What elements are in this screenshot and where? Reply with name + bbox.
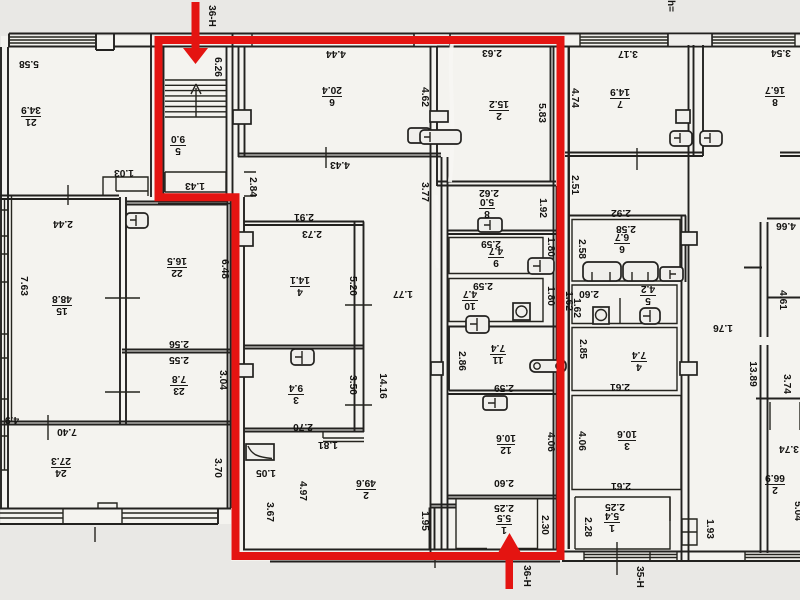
- far right wall verticals: [761, 222, 768, 553]
- svg-text:3.17: 3.17: [618, 48, 638, 59]
- room 4-7.4 box: [572, 328, 677, 391]
- label room 3/10.6: [617, 428, 637, 451]
- svg-text:4.97: 4.97: [297, 481, 308, 501]
- label room 24/27.3: [51, 455, 71, 478]
- right column right wall: [681, 215, 683, 561]
- creases: [450, 42, 452, 182]
- svg-text:2.59: 2.59: [473, 280, 493, 291]
- svg-text:1.92: 1.92: [537, 198, 548, 218]
- svg-text:2: 2: [363, 489, 369, 500]
- svg-text:3.50: 3.50: [347, 375, 358, 395]
- radiators room7/8 top-right: [670, 131, 692, 146]
- svg-text:20.4: 20.4: [322, 84, 342, 95]
- svg-text:21: 21: [25, 116, 37, 127]
- svg-text:2.85: 2.85: [577, 339, 588, 359]
- door room6 left: [233, 110, 251, 124]
- svg-text:h=: h=: [665, 0, 676, 12]
- label room 8/16.7: [765, 84, 785, 107]
- room 1-5.4 right step: [670, 497, 697, 545]
- rooms 22/23 divider: [122, 350, 231, 353]
- entry door sloped room2-49.6: [246, 444, 274, 460]
- svg-text:5: 5: [175, 145, 181, 156]
- svg-text:8: 8: [772, 96, 778, 107]
- door square room4 left: [238, 232, 253, 246]
- svg-text:3.70: 3.70: [212, 458, 223, 478]
- red-flank wall inner (x553-556): [554, 46, 557, 549]
- svg-text:5.58: 5.58: [19, 58, 39, 69]
- svg-text:6: 6: [329, 96, 335, 107]
- door bump room6-6.7 right: [681, 232, 697, 245]
- svg-text:36-H: 36-H: [521, 565, 532, 587]
- label room 5/9.0: [170, 133, 186, 156]
- svg-text:2.61: 2.61: [611, 480, 631, 491]
- room 1-5.5 box: [456, 499, 538, 550]
- room 5-4.2 box: [572, 285, 677, 324]
- svg-text:2.25: 2.25: [494, 502, 514, 513]
- svg-text:2.59: 2.59: [481, 238, 501, 249]
- svg-text:16.7: 16.7: [765, 84, 785, 95]
- svg-text:1.93: 1.93: [704, 519, 715, 539]
- svg-text:2.91: 2.91: [294, 211, 314, 222]
- sofa row room6-6.7: [583, 262, 621, 281]
- svg-text:9.4: 9.4: [289, 382, 303, 393]
- label room 5/4.2: [640, 283, 656, 306]
- svg-text:1.43: 1.43: [185, 180, 205, 191]
- svg-text:7: 7: [617, 98, 623, 109]
- svg-text:2.59: 2.59: [494, 382, 514, 393]
- svg-text:2.28: 2.28: [582, 517, 593, 537]
- room 15 left inner wall: [11, 196, 13, 421]
- room 7 bottom wall: [565, 153, 800, 157]
- room 3-10.6 box: [572, 396, 681, 490]
- svg-text:6.26: 6.26: [212, 57, 223, 77]
- svg-text:7.4: 7.4: [491, 342, 505, 353]
- svg-text:1.80: 1.80: [545, 237, 556, 257]
- room 6-20.4 left wall: [239, 47, 245, 157]
- svg-text:2.51: 2.51: [569, 175, 580, 195]
- svg-text:15: 15: [56, 305, 68, 316]
- svg-text:1.77: 1.77: [393, 288, 413, 299]
- svg-text:66.9: 66.9: [765, 472, 785, 483]
- svg-text:3: 3: [293, 394, 299, 405]
- svg-text:35-H: 35-H: [634, 566, 645, 588]
- label room 22/16.5: [167, 255, 187, 278]
- svg-text:27.3: 27.3: [51, 455, 71, 466]
- svg-text:3.54: 3.54: [771, 47, 791, 58]
- svg-text:2.63: 2.63: [482, 47, 502, 58]
- stairs landing 1.43 box: [165, 172, 226, 192]
- label room 2/15.2: [489, 98, 509, 121]
- bottom mid band: [243, 550, 562, 562]
- label room 4/14.1: [290, 274, 310, 297]
- svg-text:6: 6: [619, 243, 625, 254]
- svg-text:4.44: 4.44: [326, 48, 346, 59]
- stairs up arrow: [191, 84, 201, 117]
- svg-text:10: 10: [464, 300, 476, 311]
- bottom-left band bump: [98, 503, 117, 509]
- left exterior wall: [1, 47, 8, 508]
- svg-text:36-H: 36-H: [206, 5, 217, 27]
- svg-text:7.4: 7.4: [632, 349, 646, 360]
- corridor wall x354-364: [355, 222, 364, 433]
- svg-text:22: 22: [171, 267, 183, 278]
- svg-text:2.58: 2.58: [616, 223, 636, 234]
- room 6-6.7 box: [572, 220, 680, 282]
- wall below lobby: [120, 197, 126, 425]
- pier top-right: [668, 34, 712, 47]
- label room 1/5.4: [604, 510, 620, 533]
- svg-text:23: 23: [173, 385, 185, 396]
- svg-text:4.9: 4.9: [5, 414, 19, 425]
- svg-text:4.62: 4.62: [419, 87, 430, 107]
- svg-text:24: 24: [55, 467, 67, 478]
- door bump room6 right: [408, 128, 430, 143]
- svg-text:6.48: 6.48: [219, 259, 230, 279]
- label room 21/34.9: [21, 104, 41, 127]
- stairwell left wall: [151, 34, 164, 198]
- svg-text:48.8: 48.8: [52, 293, 72, 304]
- room 3 bottom wall: [244, 429, 364, 432]
- label room 15/48.8: [52, 293, 72, 316]
- rooms 4/3 divider: [244, 346, 364, 349]
- svg-text:14.9: 14.9: [610, 86, 630, 97]
- svg-text:5: 5: [645, 295, 651, 306]
- svg-text:16.5: 16.5: [167, 255, 187, 266]
- svg-text:4.2: 4.2: [641, 283, 655, 294]
- door bump corridor room11: [431, 362, 443, 375]
- room 12-10.6 box: [448, 394, 557, 499]
- label room 11/7.4: [490, 342, 506, 365]
- svg-text:1.05: 1.05: [256, 467, 276, 478]
- label room 6/20.4: [322, 84, 342, 107]
- svg-text:7.40: 7.40: [57, 426, 77, 437]
- red-flank wall outer: [568, 46, 570, 549]
- right column left wall: [568, 46, 570, 549]
- svg-text:4: 4: [297, 286, 303, 297]
- svg-text:2.62: 2.62: [479, 187, 499, 198]
- svg-text:13.89: 13.89: [747, 361, 758, 387]
- svg-text:10.6: 10.6: [496, 432, 516, 443]
- door bump room2 left: [430, 111, 448, 122]
- window hatch top-mid: [252, 34, 427, 48]
- svg-text:4.74: 4.74: [569, 88, 580, 108]
- svg-text:2.44: 2.44: [53, 218, 73, 229]
- svg-text:1.76: 1.76: [713, 322, 733, 333]
- radiator room2: [420, 130, 461, 144]
- label room 23/7.8: [170, 373, 188, 396]
- svg-text:4.61: 4.61: [777, 290, 788, 310]
- svg-text:4.06: 4.06: [576, 431, 587, 451]
- svg-text:1.03: 1.03: [114, 167, 134, 178]
- svg-text:1.81: 1.81: [318, 439, 338, 450]
- svg-text:2.58: 2.58: [576, 239, 587, 259]
- window hatch top-left: [9, 37, 96, 43]
- cylinder room5-4.2: [593, 307, 609, 324]
- room 22 top wall: [126, 202, 228, 205]
- room 6-20.4 bottom wall: [238, 154, 441, 157]
- svg-text:4.66: 4.66: [776, 220, 796, 231]
- room 21 bottom wall: [0, 196, 119, 200]
- red unit outline: [159, 40, 561, 556]
- svg-text:4: 4: [636, 361, 642, 372]
- svg-text:3.74: 3.74: [779, 443, 799, 454]
- middle column left wall: [442, 157, 448, 550]
- svg-text:2.86: 2.86: [456, 351, 467, 371]
- svg-text:2.30: 2.30: [539, 515, 550, 535]
- corridor wall x430-437: [431, 47, 438, 553]
- door room8 bottom: [478, 218, 502, 232]
- svg-text:2.25: 2.25: [605, 501, 625, 512]
- svg-text:2: 2: [496, 110, 502, 121]
- rooms 4/3 top wall: [244, 222, 364, 226]
- svg-text:2.61: 2.61: [610, 381, 630, 392]
- svg-text:34.9: 34.9: [21, 104, 41, 115]
- svg-text:4.43: 4.43: [330, 159, 350, 170]
- svg-text:3.04: 3.04: [217, 370, 228, 390]
- room 23 bottom / rooms left bottom wall: [0, 422, 231, 425]
- svg-text:11: 11: [492, 354, 503, 365]
- bath capsule room11: [530, 360, 566, 372]
- label room 4/7.4: [631, 349, 647, 372]
- label room 6/6.7: [614, 231, 630, 254]
- bottom-left exterior band: [0, 509, 231, 525]
- svg-text:7.8: 7.8: [172, 373, 186, 384]
- svg-text:3.74: 3.74: [781, 374, 792, 394]
- svg-text:49.6: 49.6: [356, 477, 376, 488]
- svg-text:5.83: 5.83: [536, 103, 547, 123]
- label room 8/5.0: [479, 196, 495, 219]
- door square room3 left: [238, 364, 253, 377]
- toilet room9: [528, 258, 554, 274]
- svg-text:1: 1: [609, 522, 615, 533]
- svg-text:5.04: 5.04: [792, 501, 800, 521]
- label room 3/9.4: [288, 382, 304, 405]
- lobby 1.03 box: [103, 177, 148, 196]
- svg-text:3.67: 3.67: [264, 502, 275, 522]
- room 8-5.0 box: [448, 231, 557, 235]
- unit left wall flanks: [231, 197, 245, 549]
- room 7 box right wall: [689, 45, 694, 561]
- svg-text:4.06: 4.06: [545, 432, 556, 452]
- svg-text:7.63: 7.63: [18, 276, 29, 296]
- svg-text:2.73: 2.73: [302, 228, 322, 239]
- svg-text:2.60: 2.60: [494, 477, 514, 488]
- room 9-4.7 box: [449, 238, 543, 274]
- door room22 left bump: [126, 213, 148, 228]
- svg-text:3: 3: [624, 440, 630, 451]
- room 1-5.4 box: [575, 497, 670, 549]
- svg-text:12: 12: [500, 444, 512, 455]
- svg-text:9.0: 9.0: [171, 133, 185, 144]
- toilet room5-4.2: [640, 308, 660, 324]
- room 11-7.4 box: [448, 327, 557, 391]
- room 2-15.2 box: [437, 47, 556, 186]
- svg-text:14.1: 14.1: [290, 274, 310, 285]
- label room 7/14.9: [610, 86, 630, 109]
- svg-text:9: 9: [493, 257, 499, 268]
- stairwell right wall: [227, 34, 233, 198]
- door room3 top: [291, 349, 314, 365]
- far right stubs: [744, 219, 800, 399]
- unit lower-left step walls: [430, 505, 457, 551]
- svg-text:15.2: 15.2: [489, 98, 509, 109]
- label room 1/5.5: [496, 512, 512, 535]
- svg-text:2.56: 2.56: [169, 338, 189, 349]
- window hatch top-right segs: [580, 34, 668, 48]
- step wall 1.81: [323, 432, 364, 442]
- svg-text:3.77: 3.77: [419, 182, 430, 202]
- svg-text:14.16: 14.16: [377, 373, 388, 399]
- svg-text:2: 2: [772, 484, 778, 495]
- label room 12/10.6: [496, 432, 516, 455]
- svg-text:1.62: 1.62: [571, 298, 582, 318]
- door room12 top: [483, 396, 507, 410]
- svg-text:1.95: 1.95: [419, 511, 430, 531]
- svg-text:8: 8: [484, 208, 490, 219]
- shower room10: [513, 303, 530, 320]
- label room 2/66.9: [765, 472, 785, 495]
- svg-text:10.6: 10.6: [617, 428, 637, 439]
- svg-text:1: 1: [501, 524, 507, 535]
- room 10-4.7 box: [449, 279, 543, 322]
- red entry arrow top: [192, 2, 200, 49]
- svg-text:5.20: 5.20: [347, 276, 358, 296]
- svg-text:1.80: 1.80: [545, 286, 556, 306]
- top exterior wall band: [9, 34, 800, 51]
- rooms 22-23 right wall: [227, 200, 229, 508]
- door bump room4-7.4 right: [680, 362, 697, 375]
- room 6-6.7 outer: [569, 216, 686, 283]
- svg-text:2.70: 2.70: [293, 421, 313, 432]
- pier top-mid: [414, 34, 450, 47]
- label room 9/4.7: [488, 245, 504, 268]
- label room 2/49.6: [356, 477, 376, 500]
- svg-text:2.84: 2.84: [247, 177, 258, 197]
- door room11 top: [466, 316, 489, 333]
- label room 10/4.7: [462, 288, 478, 311]
- stairs treads: [165, 80, 226, 117]
- dim ticks at 2.84: [158, 172, 256, 204]
- right section divider wall upper: [702, 45, 704, 156]
- svg-text:2.92: 2.92: [611, 207, 631, 218]
- red entry arrow bottom: [506, 551, 514, 589]
- svg-text:2.55: 2.55: [169, 354, 189, 365]
